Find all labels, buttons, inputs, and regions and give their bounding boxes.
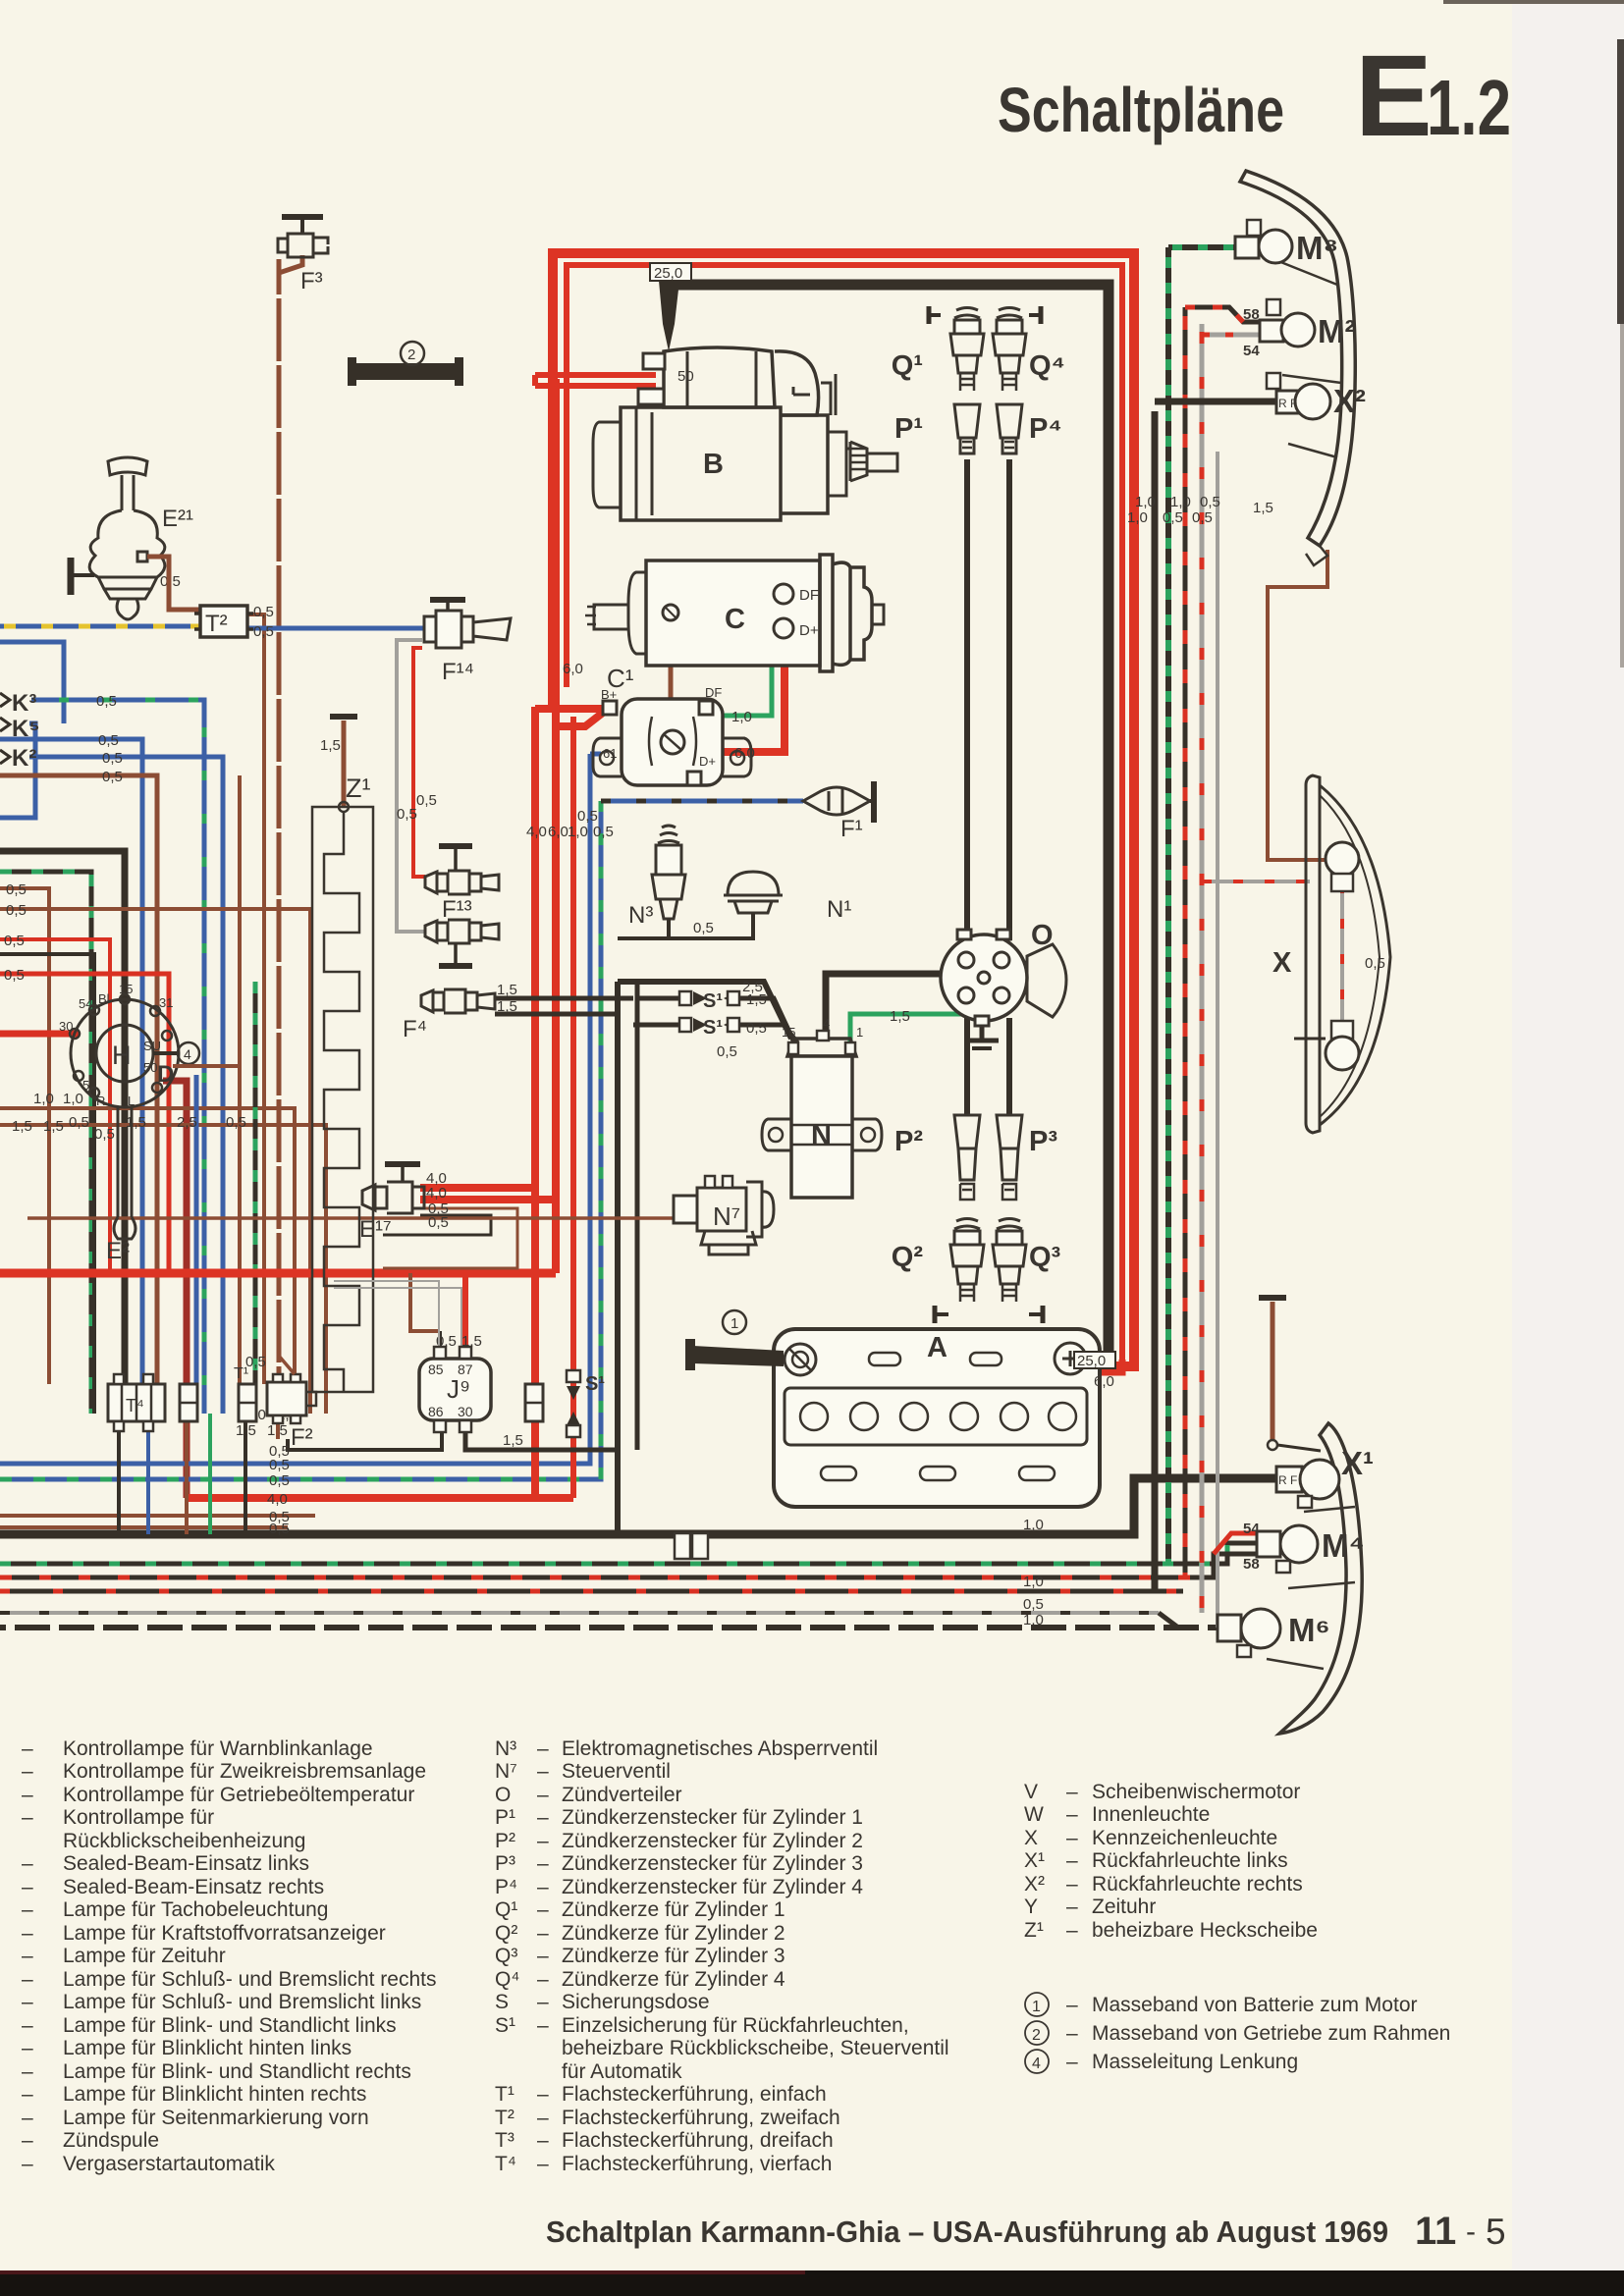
- wire: M2 lamp feed 54: [1202, 333, 1260, 338]
- wire: red from H 50 down: [163, 1081, 187, 1498]
- svg-text:Rückblickscheibenheizung: Rückblickscheibenheizung: [63, 1830, 305, 1852]
- svg-text:–: –: [22, 1945, 33, 1967]
- svg-text:0,5: 0,5: [96, 693, 117, 710]
- wire: E17 thin leads: [383, 1208, 517, 1268]
- svg-text:58: 58: [1243, 1556, 1260, 1573]
- svg-text:0,5: 0,5: [1200, 494, 1220, 510]
- svg-text:1,5: 1,5: [1253, 500, 1273, 516]
- legend column 1: [22, 1737, 436, 2175]
- wire: brown generator to regulator: [669, 616, 674, 728]
- svg-text:1,5: 1,5: [43, 1118, 64, 1135]
- footer caption: [546, 2210, 1506, 2253]
- svg-text:25,0: 25,0: [1077, 1353, 1106, 1369]
- wire: blue vertical x190: [194, 1075, 199, 1414]
- svg-text:–: –: [22, 2153, 33, 2175]
- svg-text:1,0: 1,0: [1135, 494, 1156, 510]
- svg-text:T²: T²: [205, 611, 228, 637]
- license plate lamp X housing: [1306, 775, 1390, 1133]
- svg-text:0,5: 0,5: [1023, 1596, 1044, 1613]
- wire: gray trunk y1643: [0, 1611, 1164, 1615]
- starter automatic E17: [359, 1164, 424, 1243]
- svg-text:Kontrollampe für Warnblinkanla: Kontrollampe für Warnblinkanlage: [63, 1737, 373, 1760]
- wire: blue T2 to F14: [234, 626, 424, 631]
- wire: green dashed y888: [0, 872, 91, 1414]
- svg-text:Zündverteiler: Zündverteiler: [562, 1784, 682, 1806]
- svg-text:0,5: 0,5: [102, 750, 123, 767]
- svg-text:P²: P²: [495, 1830, 515, 1852]
- svg-text:25,0: 25,0: [654, 265, 682, 282]
- wire: red dashed trunk y1607 to M4 58: [0, 1554, 1260, 1577]
- svg-text:0,5: 0,5: [746, 1020, 767, 1037]
- svg-text:–: –: [22, 1760, 33, 1783]
- wire: red 0.5 x112: [0, 939, 110, 1273]
- svg-text:T¹: T¹: [495, 2083, 514, 2106]
- svg-text:30: 30: [59, 1019, 73, 1034]
- svg-text:4: 4: [184, 1046, 191, 1062]
- svg-text:Lampe für Blinklicht hinten li: Lampe für Blinklicht hinten links: [63, 2037, 352, 2059]
- svg-text:V: V: [1024, 1781, 1038, 1803]
- wire: ignition cable P4: [1006, 459, 1012, 940]
- svg-text:T⁴: T⁴: [495, 2153, 516, 2175]
- svg-text:1,0: 1,0: [1023, 1612, 1044, 1629]
- svg-text:Lampe für Seitenmarkierung vor: Lampe für Seitenmarkierung vorn: [63, 2107, 369, 2129]
- distributor O: [941, 920, 1066, 1026]
- svg-text:Flachsteckerführung, vierfach: Flachsteckerführung, vierfach: [562, 2153, 832, 2175]
- key E2: [106, 1107, 135, 1264]
- svg-text:–: –: [537, 1806, 549, 1829]
- svg-text:P¹: P¹: [894, 413, 923, 445]
- wire: brown pair y1129: [0, 1108, 295, 1384]
- svg-text:Lampe für Zeituhr: Lampe für Zeituhr: [63, 1945, 226, 1967]
- svg-text:N: N: [811, 1120, 832, 1151]
- svg-text:0,5: 0,5: [717, 1043, 737, 1060]
- svg-text:1: 1: [856, 1025, 863, 1040]
- lamp M8: [1235, 220, 1338, 266]
- wire: green DF generator to regulator 1.0: [714, 596, 784, 716]
- svg-text:0,5: 0,5: [1163, 509, 1183, 526]
- wire: black main trunk y1563 to X1 lamp: [0, 1478, 1276, 1534]
- fuse S1 upper: [679, 990, 739, 1012]
- carburettor choke E21: [71, 457, 193, 619]
- wire: ignition cable P1: [964, 459, 970, 940]
- svg-text:M²: M²: [1318, 313, 1355, 349]
- wire: thin sender leads to J9: [334, 1281, 461, 1347]
- svg-text:Kontrollampe für Zweikreisbrem: Kontrollampe für Zweikreisbremsanlage: [63, 1760, 426, 1783]
- svg-text:–: –: [537, 2153, 549, 2175]
- legend column 2: [495, 1737, 949, 2175]
- wire: green dashed vertical x1186: [1165, 247, 1171, 1564]
- svg-text:S¹: S¹: [703, 1017, 723, 1039]
- svg-text:–: –: [537, 1737, 549, 1760]
- wire: red frame inner second line: [567, 265, 1122, 1360]
- svg-text:F³: F³: [300, 268, 323, 294]
- svg-text:1: 1: [731, 1315, 738, 1332]
- svg-text:–: –: [22, 2107, 33, 2129]
- svg-text:1,0: 1,0: [731, 709, 752, 725]
- svg-text:O: O: [1031, 920, 1054, 951]
- svg-text:Rückfahrleuchte links: Rückfahrleuchte links: [1092, 1849, 1288, 1872]
- svg-text:L: L: [128, 1094, 135, 1108]
- svg-text:Q¹: Q¹: [495, 1898, 517, 1921]
- wire: M2 lamp feed 58: [1185, 307, 1260, 322]
- svg-text:1,5: 1,5: [12, 1118, 32, 1135]
- wire: black coil 4 to distributor: [826, 974, 948, 1039]
- svg-text:Lampe für Blink- und Standlich: Lampe für Blink- und Standlicht links: [63, 2014, 397, 2037]
- wire: blue dashed to fuel sender F1: [601, 799, 803, 804]
- node K5: [0, 716, 40, 742]
- wire: brown x50: [0, 888, 49, 1384]
- svg-text:–: –: [22, 1898, 33, 1921]
- svg-text:–: –: [22, 2060, 33, 2083]
- svg-text:0,5: 0,5: [6, 881, 27, 898]
- svg-text:1,0: 1,0: [1170, 494, 1191, 510]
- svg-text:0,5: 0,5: [98, 732, 119, 749]
- svg-text:4,0: 4,0: [267, 1491, 288, 1508]
- svg-text:Zündkerzenstecker für Zylinder: Zündkerzenstecker für Zylinder 1: [562, 1806, 863, 1829]
- wire: brown y1544: [0, 1514, 315, 1518]
- svg-text:1,0: 1,0: [33, 1091, 54, 1107]
- svg-text:1,0: 1,0: [1127, 509, 1148, 526]
- svg-text:0,5: 0,5: [269, 1521, 290, 1537]
- plug connector P4: [997, 404, 1062, 454]
- svg-text:1: 1: [1032, 1999, 1041, 2015]
- wire size labels center: [320, 661, 910, 1449]
- svg-text:–: –: [22, 1737, 33, 1760]
- wire: 25.0 wedge into starter 50: [659, 281, 679, 351]
- svg-text:0,5: 0,5: [428, 1214, 449, 1231]
- svg-text:1,0: 1,0: [63, 1091, 83, 1107]
- svg-text:Q⁴: Q⁴: [1029, 350, 1065, 382]
- wire: E17 red 4.0 pair: [420, 1188, 556, 1200]
- wire: black vertical x629 coil feed: [615, 982, 621, 1534]
- svg-text:Steuerventil: Steuerventil: [562, 1760, 671, 1783]
- svg-text:0,5: 0,5: [693, 920, 714, 936]
- svg-text:E¹⁷: E¹⁷: [359, 1216, 392, 1243]
- svg-text:Kennzeichenleuchte: Kennzeichenleuchte: [1092, 1827, 1277, 1849]
- svg-text:4: 4: [1032, 2056, 1041, 2072]
- svg-text:–: –: [22, 2083, 33, 2106]
- ignition coil N: [762, 1016, 882, 1198]
- svg-text:Masseband von Getriebe zum Rah: Masseband von Getriebe zum Rahmen: [1092, 2022, 1450, 2045]
- svg-text:Elektromagnetisches Absperrven: Elektromagnetisches Absperrventil: [562, 1737, 878, 1760]
- spark plug Q1: [892, 306, 984, 391]
- wire: J9 87 red up: [462, 1273, 468, 1349]
- wire: red heavy to H term 30: [0, 1031, 79, 1038]
- pressure switch N1: [669, 872, 851, 938]
- svg-text:4,0: 4,0: [526, 824, 547, 840]
- svg-text:15: 15: [782, 1025, 795, 1040]
- svg-text:Zündkerze für Zylinder 4: Zündkerze für Zylinder 4: [562, 1968, 785, 1991]
- wire: gray from F14: [397, 640, 425, 932]
- svg-text:1,5: 1,5: [126, 1114, 146, 1131]
- svg-text:Schaltplan Karmann-Ghia – USA-: Schaltplan Karmann-Ghia – USA-Ausführung…: [546, 2215, 1388, 2249]
- legend column 3: [1024, 1781, 1318, 1942]
- license lamp lower bulb: [1272, 947, 1385, 1070]
- spark plug Q4: [993, 306, 1065, 391]
- svg-text:P³: P³: [495, 1852, 515, 1875]
- svg-text:S¹: S¹: [585, 1373, 605, 1395]
- reversing lamp X2: [1267, 373, 1366, 419]
- svg-text:Sealed-Beam-Einsatz rechts: Sealed-Beam-Einsatz rechts: [63, 1876, 324, 1898]
- plug connector P2: [894, 1115, 980, 1200]
- svg-text:Lampe für Blinklicht hinten re: Lampe für Blinklicht hinten rechts: [63, 2083, 366, 2106]
- tail light housing right bottom: [1267, 1423, 1362, 1734]
- generator C: [585, 555, 884, 671]
- ground strap 2 (Masseband Getriebe): [348, 342, 463, 386]
- svg-text:X: X: [1024, 1827, 1038, 1849]
- svg-text:61: 61: [603, 746, 617, 761]
- svg-text:–: –: [22, 1991, 33, 2013]
- svg-text:54: 54: [79, 996, 92, 1011]
- svg-text:0,5: 0,5: [1365, 955, 1385, 972]
- wire: black F4 leads: [495, 998, 633, 1014]
- svg-text:K³: K³: [12, 690, 36, 717]
- connector T below battery: [675, 1533, 708, 1559]
- svg-text:1,0: 1,0: [1023, 1517, 1044, 1533]
- wire: gray vertical x1259: [1216, 452, 1219, 1628]
- svg-text:50: 50: [677, 368, 694, 385]
- svg-text:–: –: [1066, 1919, 1078, 1942]
- svg-text:Scheibenwischermotor: Scheibenwischermotor: [1092, 1781, 1300, 1803]
- svg-text:S: S: [495, 1991, 509, 2013]
- wire: black trunk y1621: [0, 1589, 1183, 1594]
- svg-text:–: –: [1066, 1994, 1078, 2016]
- wire: black vertical x1205: [1152, 411, 1159, 1591]
- svg-text:X²: X²: [1024, 1873, 1045, 1896]
- svg-text:F²: F²: [291, 1424, 313, 1451]
- svg-text:S¹: S¹: [495, 2014, 515, 2037]
- svg-text:Zündkerzenstecker für Zylinder: Zündkerzenstecker für Zylinder 4: [562, 1876, 863, 1898]
- svg-text:F¹⁴: F¹⁴: [442, 659, 474, 685]
- heated rear window Z1: [312, 774, 373, 1392]
- brake light switch F2: [245, 1354, 316, 1451]
- wire: E21 brown lead to T2: [147, 557, 200, 610]
- svg-text:1,5: 1,5: [320, 737, 341, 754]
- svg-text:30: 30: [458, 1404, 473, 1419]
- svg-text:P³: P³: [1029, 1126, 1057, 1157]
- wire: brown dashed vertical x284 from F3: [277, 259, 282, 1384]
- wire: brown pair y1146: [0, 1125, 326, 1414]
- svg-text:Sicherungsdose: Sicherungsdose: [562, 1991, 710, 2013]
- wire: blue K2 0.5: [0, 739, 142, 1384]
- svg-text:Zündkerze für Zylinder 2: Zündkerze für Zylinder 2: [562, 1922, 785, 1945]
- wire: black S1 fuse row lower 0.5: [633, 1025, 797, 1042]
- wire: black 25.0 battery cable frame: [669, 285, 1109, 1364]
- legend ground notes: [1025, 1993, 1450, 2073]
- svg-text:1,5: 1,5: [497, 998, 517, 1015]
- svg-text:0,5: 0,5: [269, 1472, 290, 1489]
- svg-text:E²: E²: [106, 1238, 130, 1264]
- svg-text:–: –: [537, 1760, 549, 1783]
- wire: blue/yellow dashed bus to T2: [0, 624, 200, 629]
- wire: M8 lamp feed: [1168, 244, 1237, 250]
- 25.0 label box at battery: [1074, 1352, 1115, 1390]
- svg-text:W: W: [1024, 1803, 1044, 1826]
- svg-text:–: –: [537, 1922, 549, 1945]
- svg-text:–: –: [22, 1876, 33, 1898]
- svg-text:–: –: [22, 1922, 33, 1945]
- svg-text:0,5: 0,5: [397, 806, 417, 823]
- svg-text:6,0: 6,0: [1094, 1373, 1114, 1390]
- svg-text:SU: SU: [143, 1039, 161, 1053]
- svg-text:–: –: [537, 2083, 549, 2106]
- svg-text:–: –: [22, 1968, 33, 1991]
- svg-text:J⁹: J⁹: [447, 1374, 470, 1404]
- svg-text:–: –: [1066, 2051, 1078, 2073]
- svg-text:Lampe für Schluß- und Bremslic: Lampe für Schluß- und Bremslicht rechts: [63, 1968, 436, 1991]
- reversing lamp X1: [1276, 1445, 1374, 1508]
- right harness size labels: [1127, 494, 1273, 526]
- wire: red heavy bus y1345: [0, 1269, 556, 1278]
- svg-text:15: 15: [119, 982, 133, 996]
- plug connector P3: [997, 1115, 1057, 1200]
- svg-text:T²: T²: [495, 2107, 514, 2129]
- svg-text:X¹: X¹: [1024, 1849, 1045, 1872]
- svg-text:Masseleitung Lenkung: Masseleitung Lenkung: [1092, 2051, 1298, 2073]
- wire: X2 housing brown to license lamp: [1268, 550, 1327, 860]
- connector T2: [194, 604, 274, 640]
- svg-text:T³: T³: [495, 2129, 514, 2152]
- svg-text:M⁸: M⁸: [1296, 230, 1338, 266]
- wire: red 0.5 x172: [0, 974, 169, 1273]
- node K2: [0, 745, 36, 772]
- svg-text:Innenleuchte: Innenleuchte: [1092, 1803, 1210, 1826]
- wire: blue stub y654: [0, 642, 64, 723]
- lamp M2: [1243, 299, 1355, 359]
- wire: brown vertical x269 from T2: [247, 614, 264, 1384]
- svg-text:H: H: [112, 1041, 132, 1070]
- wire: red trunk 4.0 x545: [531, 707, 539, 1498]
- svg-text:0,5: 0,5: [253, 623, 274, 640]
- svg-text:0,5: 0,5: [253, 604, 274, 620]
- lamp M4: [1243, 1521, 1365, 1573]
- svg-text:Z¹: Z¹: [346, 774, 370, 803]
- svg-text:C: C: [725, 604, 745, 635]
- svg-text:E: E: [1355, 31, 1433, 161]
- svg-text:54: 54: [1243, 1521, 1260, 1537]
- svg-text:4,0: 4,0: [426, 1185, 447, 1201]
- connector stubs below T4 row: [119, 1414, 278, 1534]
- wire: red B+ feed arrow into regulator: [535, 709, 603, 726]
- wire: ignition cable P2: [964, 1018, 970, 1115]
- svg-text:X¹: X¹: [1341, 1445, 1374, 1481]
- wire: red frame outer (battery + feed): [553, 253, 1134, 1366]
- wire: red trunk 6.0 x566: [552, 379, 560, 1273]
- wire: brown 0.5 to x160: [0, 775, 157, 1414]
- oil temp sender F13: [425, 846, 499, 923]
- svg-text:–: –: [537, 1876, 549, 1898]
- valve F3: [278, 217, 328, 294]
- svg-text:–: –: [537, 1991, 549, 2013]
- wire: blue 0.5 to x227: [29, 757, 223, 1414]
- svg-text:O: O: [495, 1784, 511, 1806]
- svg-text:–: –: [22, 1784, 33, 1806]
- svg-text:31: 31: [159, 995, 173, 1010]
- svg-text:Bl: Bl: [98, 991, 110, 1006]
- fuse S1 lower: [679, 1017, 739, 1039]
- svg-text:Sealed-Beam-Einsatz links: Sealed-Beam-Einsatz links: [63, 1852, 309, 1875]
- svg-text:M⁴: M⁴: [1322, 1527, 1365, 1564]
- svg-text:–: –: [537, 2014, 549, 2037]
- oil temp sender 2: [425, 920, 499, 966]
- svg-text:–: –: [537, 1830, 549, 1852]
- svg-text:–: –: [1066, 1896, 1078, 1918]
- svg-text:Flachsteckerführung, dreifach: Flachsteckerführung, dreifach: [562, 2129, 834, 2152]
- svg-text:Z¹: Z¹: [1024, 1919, 1044, 1942]
- ground strap 1 battery to motor: [685, 1310, 784, 1370]
- svg-text:DF: DF: [799, 587, 819, 604]
- svg-text:0,5: 0,5: [1192, 509, 1213, 526]
- svg-text:–: –: [537, 2107, 549, 2129]
- wire: red trunk 1.0 x584 through S1 fuse: [570, 717, 576, 1498]
- title E1.2: [1355, 31, 1511, 161]
- wire: brown Z1 feed 1.5: [330, 717, 357, 807]
- svg-text:1,5: 1,5: [890, 1008, 910, 1025]
- wire: battery 6.0 red to + post: [1072, 1360, 1122, 1372]
- svg-text:–: –: [537, 2129, 549, 2152]
- svg-text:N⁷: N⁷: [495, 1760, 517, 1783]
- svg-text:5: 5: [1486, 2212, 1506, 2252]
- solenoid cutoff valve N3: [618, 826, 685, 938]
- single fuse S1 vertical: [567, 1370, 605, 1437]
- connector T right: [525, 1384, 543, 1421]
- wire: brown vertical x244: [238, 775, 242, 1384]
- svg-text:Q²: Q²: [495, 1922, 517, 1945]
- svg-text:50: 50: [143, 1060, 157, 1075]
- svg-text:1,0: 1,0: [1023, 1574, 1044, 1590]
- svg-text:B: B: [703, 449, 724, 480]
- wire: ignition cable P3: [1006, 1018, 1012, 1115]
- wire: black 2.5 to coil 15: [618, 982, 791, 1039]
- svg-text:N⁷: N⁷: [713, 1201, 740, 1231]
- svg-text:Einzelsicherung für Rückfahrle: Einzelsicherung für Rückfahrleuchten,: [562, 2014, 909, 2037]
- svg-text:beheizbare Rückblickscheibe, S: beheizbare Rückblickscheibe, Steuerventi…: [562, 2037, 949, 2059]
- svg-text:2: 2: [407, 347, 415, 363]
- svg-text:54: 54: [1243, 343, 1260, 359]
- svg-text:0,5: 0,5: [6, 902, 27, 919]
- svg-text:DF: DF: [705, 685, 722, 700]
- svg-text:–: –: [22, 1852, 33, 1875]
- battery A: [774, 1329, 1100, 1507]
- svg-text:1.2: 1.2: [1427, 64, 1511, 151]
- wire: blue 0.5 y1491: [0, 754, 590, 1464]
- svg-text:Rückfahrleuchte rechts: Rückfahrleuchte rechts: [1092, 1873, 1303, 1896]
- wire: red D+ 6.0 regulator to generator: [701, 638, 785, 752]
- svg-text:F⁴: F⁴: [403, 1016, 427, 1042]
- svg-text:1,5: 1,5: [497, 982, 517, 998]
- spark plug Q3: [993, 1219, 1061, 1324]
- wire: red 0.5 from F14: [413, 648, 425, 877]
- 25.0 label box: [650, 263, 691, 282]
- svg-text:0,5: 0,5: [269, 1457, 290, 1473]
- node K3: [0, 690, 36, 717]
- connector T: [180, 1384, 197, 1421]
- svg-text:6,0: 6,0: [548, 824, 568, 840]
- svg-text:Q¹: Q¹: [892, 350, 923, 382]
- connector T4: [108, 1374, 165, 1431]
- wire: J9 30 black 1.5 to x629: [465, 1420, 618, 1450]
- plug connector P1: [894, 404, 980, 454]
- top edge scan shadow: [1443, 0, 1624, 4]
- svg-text:5: 5: [82, 1078, 89, 1093]
- wire: brown thin to N7 valve: [27, 1216, 673, 1220]
- wire: green dashed vertical x260: [253, 982, 258, 1414]
- svg-text:1,5: 1,5: [746, 991, 767, 1008]
- right page-edge lighter strip: [1512, 0, 1624, 2296]
- svg-text:Q⁴: Q⁴: [495, 1968, 519, 1991]
- svg-text:E²¹: E²¹: [162, 506, 193, 532]
- license lamp upper bulb: [1326, 842, 1359, 891]
